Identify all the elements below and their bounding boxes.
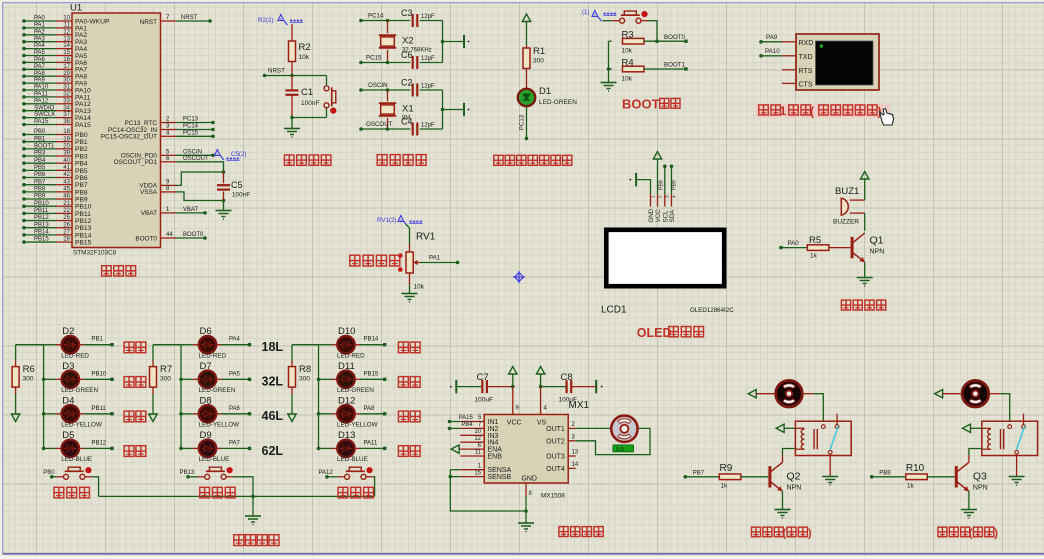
svg-text:PB4: PB4 [461, 422, 473, 428]
svg-text:PA15: PA15 [75, 122, 91, 129]
wire NRST horizontal [263, 74, 327, 78]
svg-text:LED-GREEN: LED-GREEN [337, 387, 374, 394]
wire net PA12 [319, 470, 345, 478]
ground MX1508 [518, 523, 534, 532]
svg-text:300: 300 [533, 58, 544, 65]
svg-text:OLED: OLED [637, 326, 672, 340]
arrow terminal below R6 [11, 414, 19, 422]
svg-text:D5: D5 [62, 430, 74, 441]
svg-text:OSCOUT: OSCOUT [183, 156, 209, 162]
svg-text:MX1: MX1 [569, 400, 590, 411]
svg-text:D4: D4 [62, 395, 74, 406]
svg-text:PA10: PA10 [765, 48, 780, 55]
svg-text:15: 15 [63, 50, 70, 56]
svg-text:D6: D6 [200, 326, 212, 337]
svg-text:PB6: PB6 [75, 175, 88, 182]
label LCD1 [601, 305, 627, 316]
svg-text:(: ( [810, 105, 814, 119]
svg-text:PB5: PB5 [75, 168, 88, 175]
svg-text:PB11: PB11 [75, 211, 91, 218]
svg-text:BOOT1: BOOT1 [34, 143, 55, 149]
svg-text:PB15: PB15 [75, 239, 92, 246]
svg-text:26: 26 [63, 222, 70, 228]
wire net PB14 [360, 337, 386, 347]
svg-text:1k: 1k [907, 483, 915, 490]
svg-text:12pF: 12pF [421, 56, 435, 62]
wire C1 bottom to button [290, 108, 326, 119]
svg-text:29: 29 [63, 71, 70, 77]
label 脱水 [398, 446, 420, 457]
wire pin 4 VS [541, 387, 548, 415]
label relay 排水 [938, 527, 999, 540]
svg-text:VCC: VCC [507, 419, 522, 426]
svg-text:D10: D10 [338, 326, 355, 337]
svg-text:PB8: PB8 [658, 180, 664, 190]
U1 pin 14 net PA4 wire [22, 43, 87, 53]
svg-text:R8: R8 [299, 364, 311, 375]
svg-text:PB9: PB9 [671, 180, 677, 190]
svg-text:BUZ1: BUZ1 [835, 186, 859, 197]
push button PB0 [64, 467, 92, 479]
U1 pin 19 net PB1 wire [22, 136, 88, 146]
svg-text:11: 11 [64, 23, 71, 29]
pin ENB stub [460, 450, 484, 456]
wire GND pin 8 [524, 483, 532, 523]
svg-text:100uF: 100uF [475, 397, 493, 404]
svg-text:PA12: PA12 [319, 470, 334, 476]
label 18L [262, 340, 284, 354]
label 洗涤 [398, 377, 420, 388]
pin OUT3 stub [568, 450, 579, 456]
svg-text:(1): (1) [582, 10, 589, 16]
label OLED显示屏 [637, 326, 704, 340]
svg-text:PA11: PA11 [364, 440, 378, 446]
svg-text:R5: R5 [809, 235, 821, 246]
svg-text:LED-RED: LED-RED [61, 353, 89, 360]
svg-text:4: 4 [671, 195, 677, 198]
U1 pin 9 VDDA wire [139, 172, 223, 190]
pot RV1 bottom wire [410, 273, 425, 294]
resistor R5 [779, 235, 852, 260]
wire net PB1 [84, 337, 113, 347]
wire net PA6 [222, 406, 252, 416]
resistor R2 [289, 24, 311, 76]
svg-text:12pF: 12pF [421, 84, 435, 90]
U1 pin 42 net PB6 wire [22, 172, 88, 182]
OLED pin stubs [650, 194, 677, 206]
svg-text:PB0: PB0 [43, 470, 55, 476]
wire PB4 to IN2 [448, 422, 485, 430]
svg-text:20: 20 [63, 143, 70, 149]
pin OUT4 stub [568, 462, 579, 468]
svg-text:VBAT: VBAT [141, 210, 157, 217]
node NRST [268, 68, 285, 75]
svg-text:300: 300 [23, 376, 34, 383]
svg-text:10k: 10k [414, 284, 425, 291]
svg-text:PB1: PB1 [75, 139, 88, 146]
wire net PA8 [360, 406, 386, 416]
U1 pin 8 VSSA wire [140, 186, 224, 201]
ground relay Q3 [1009, 477, 1025, 486]
svg-text:VSSA: VSSA [140, 189, 158, 196]
svg-text:BOOT0: BOOT0 [135, 235, 157, 242]
U1 pin 45 net PB8 wire [22, 186, 88, 196]
svg-text:OLED12864I2C: OLED12864I2C [690, 307, 734, 314]
svg-text:OSCIN: OSCIN [368, 82, 388, 89]
svg-text:PB11: PB11 [34, 208, 49, 214]
svg-text:14: 14 [572, 462, 579, 468]
svg-text:PC15-OSC32_OUT: PC15-OSC32_OUT [101, 134, 157, 141]
svg-text:SENSB: SENSB [488, 474, 512, 481]
OLED pin names [648, 208, 676, 222]
svg-text:10: 10 [63, 16, 70, 22]
wire relay common to ground Q2 [829, 454, 831, 476]
U1 pin 13 net PA3 wire [22, 36, 87, 46]
U1 pin 43 net PB7 wire [22, 179, 88, 189]
LED D3 LED-GREEN [42, 361, 99, 394]
label Q1 NPN [870, 235, 885, 256]
svg-text:PA11: PA11 [34, 92, 48, 98]
svg-text:PA0: PA0 [34, 16, 46, 22]
power arrow above R1 [522, 14, 530, 45]
svg-text:PB7: PB7 [34, 179, 46, 185]
svg-text:0.0: 0.0 [616, 447, 624, 453]
svg-text:LED-GREEN: LED-GREEN [539, 99, 577, 106]
svg-text:12pF: 12pF [421, 123, 435, 129]
svg-text:LED-YELLOW: LED-YELLOW [61, 422, 102, 429]
svg-text:10k: 10k [622, 48, 633, 55]
svg-text:OUT4: OUT4 [546, 466, 565, 473]
svg-text:300: 300 [160, 376, 171, 383]
U1 pin 7 NRST wire [140, 15, 212, 26]
relay RL Q3 box [982, 421, 1038, 455]
svg-text:1: 1 [780, 104, 787, 118]
svg-text:PA8: PA8 [364, 406, 376, 412]
svg-text:300: 300 [299, 376, 310, 383]
arrow terminal below R7 [149, 414, 157, 422]
svg-text:PA9: PA9 [766, 34, 778, 41]
terminal GND of OLED [630, 173, 651, 194]
svg-text:LED-BLUE: LED-BLUE [199, 456, 230, 463]
wire anode rail R8 column [292, 345, 319, 449]
label 主芯片 (main chip) [102, 266, 136, 276]
svg-text:LED-YELLOW: LED-YELLOW [337, 422, 378, 429]
svg-text:C2: C2 [401, 78, 413, 88]
svg-text:1: 1 [650, 195, 656, 198]
svg-text:PA9: PA9 [34, 78, 46, 84]
svg-text:RTS: RTS [799, 68, 813, 75]
svg-text:PA2: PA2 [34, 29, 46, 35]
svg-text:BOOT1: BOOT1 [664, 62, 686, 69]
svg-text:11: 11 [475, 450, 482, 456]
svg-text:40: 40 [63, 158, 70, 164]
label 程序运行指示灯 (program run indicator) [494, 155, 572, 165]
wire right rail X2 [441, 21, 463, 63]
svg-text:44: 44 [166, 232, 173, 238]
svg-text:X2: X2 [402, 36, 414, 47]
U1 pin 18 net PB0 wire [22, 129, 88, 139]
U1 pin 3 net PC14 wire [108, 124, 215, 134]
svg-text:R2(2): R2(2) [258, 17, 273, 24]
svg-text:1k: 1k [721, 483, 729, 490]
svg-text:X1: X1 [402, 104, 414, 115]
svg-text:PA5: PA5 [34, 50, 46, 56]
svg-text:D2: D2 [62, 326, 74, 337]
svg-text:PA15: PA15 [459, 415, 474, 421]
svg-text:45: 45 [63, 186, 70, 192]
label MX1 [569, 400, 590, 411]
svg-text:STM32F103C8: STM32F103C8 [73, 250, 117, 257]
wire from button PA12 [366, 477, 375, 497]
svg-text:): ) [808, 528, 812, 540]
pump motor Q2 load [776, 380, 803, 407]
svg-text:LED-YELLOW: LED-YELLOW [199, 422, 240, 429]
wire OSCIN rail [359, 82, 410, 92]
U1 pin 20 net BOOT1 wire [22, 143, 88, 153]
LED D12 LED-YELLOW [317, 395, 378, 428]
label 标准 [124, 342, 146, 353]
svg-text:31: 31 [63, 85, 70, 91]
svg-text:19: 19 [63, 136, 70, 142]
svg-text:C4: C4 [401, 117, 413, 127]
svg-text:VBAT: VBAT [183, 207, 199, 213]
resistor R1 [523, 45, 545, 89]
label 晶振电路 (crystal circuit) [377, 155, 426, 166]
wire relay common to ground Q3 [1016, 454, 1018, 476]
U1 pin 10 net PA0 wire [22, 16, 110, 26]
svg-text:PB12: PB12 [92, 440, 107, 446]
svg-text:PA4: PA4 [34, 43, 46, 49]
wire net PB7 [684, 470, 720, 478]
wire-label cursor RV1(2) [377, 216, 423, 227]
pot RV1 top wire [406, 225, 410, 253]
svg-text:PB2: PB2 [75, 146, 88, 153]
svg-text:PA0: PA0 [788, 240, 800, 247]
svg-text:BOOT: BOOT [622, 97, 660, 112]
U1 pin 40 net PB4 wire [22, 158, 88, 168]
svg-text:PA4: PA4 [229, 337, 241, 343]
U1 pin 21 net PB10 wire [22, 201, 91, 211]
svg-text:18L: 18L [262, 340, 284, 354]
label 水位监测 (water level monitor) [350, 255, 400, 266]
wire from button PB0 [85, 477, 99, 497]
svg-text:U1: U1 [70, 3, 82, 14]
wire PC14 rail [359, 12, 410, 22]
arrow terminal below R8 [288, 414, 296, 422]
relay switch contacts Q2 [821, 414, 839, 454]
wire net PB15 [360, 371, 386, 381]
svg-text:PB14: PB14 [75, 232, 92, 239]
svg-text:OUT2: OUT2 [546, 438, 565, 445]
wire PA9 to RXD [759, 34, 796, 44]
LED D5 LED-BLUE [42, 430, 92, 463]
ground buttons rail [245, 496, 261, 524]
svg-text:R6: R6 [23, 364, 35, 375]
LED D8 LED-YELLOW [179, 395, 239, 428]
svg-text:MX1508: MX1508 [541, 493, 565, 500]
label RV1 [416, 232, 436, 243]
transistor Q2 [770, 462, 783, 491]
pin IN4 stub [460, 436, 484, 442]
motor MX1 [611, 416, 637, 442]
U1 pin 44 BOOT0 wire [135, 232, 206, 242]
svg-text:43: 43 [63, 179, 70, 185]
svg-text:13: 13 [63, 36, 70, 42]
ground Q1 [857, 278, 873, 287]
svg-text:PB12: PB12 [75, 218, 92, 225]
svg-text:3: 3 [665, 195, 671, 198]
svg-text:PB14: PB14 [34, 229, 49, 235]
LED D6 LED-RED [181, 326, 227, 359]
virtual terminal box [796, 34, 879, 90]
wire net PA4 [222, 337, 252, 347]
arrow terminal coil Q3 [963, 424, 982, 432]
motor rpm display [613, 445, 634, 453]
resistor R6 [12, 345, 35, 414]
wire right rail X1 [441, 90, 463, 129]
svg-text:39: 39 [63, 151, 70, 157]
svg-text:PB10: PB10 [75, 204, 92, 211]
node BOOT0 terminal [664, 34, 688, 43]
capacitor C7 [475, 372, 513, 404]
svg-text:NPN: NPN [870, 249, 885, 256]
U1 pin 6 net OSCOUT wire [114, 156, 224, 172]
push button BOOT [603, 11, 658, 41]
wire Q3 emitter to ground [968, 491, 970, 509]
svg-text:OUT3: OUT3 [546, 454, 565, 461]
wire pump to relay switch Q3 [989, 394, 1010, 422]
LED D13 LED-BLUE [317, 430, 368, 463]
arrow terminal ENA [451, 443, 484, 454]
svg-text:25: 25 [63, 215, 70, 221]
svg-text:LCD1: LCD1 [601, 305, 627, 316]
svg-text:PC13: PC13 [520, 114, 526, 130]
svg-text:32: 32 [63, 92, 70, 98]
svg-text:SWDIO: SWDIO [34, 105, 55, 111]
power arrow VCC of OLED [653, 152, 661, 195]
LED D10 LED-RED [319, 326, 366, 359]
U1 pin 33 net PA12 wire [22, 98, 91, 108]
svg-text:38: 38 [63, 119, 70, 125]
svg-text:10k: 10k [299, 54, 310, 61]
relay switch contacts Q3 [1008, 414, 1026, 454]
svg-text:LED-GREEN: LED-GREEN [61, 387, 98, 394]
wire coil to Q3 collector [969, 449, 982, 463]
wire buzzer to Q1 collector [864, 213, 866, 231]
svg-text:C1: C1 [301, 87, 313, 98]
svg-text:PC15: PC15 [183, 130, 199, 136]
power arrow VCC MX1508 [509, 367, 517, 389]
wire PC15 rail [359, 54, 410, 64]
label MX1508 [541, 493, 565, 500]
label 水位键 (water level key) [200, 487, 235, 498]
IC U2 MX1508 body [484, 415, 568, 484]
svg-text:PC13: PC13 [183, 117, 199, 123]
resistor R7 [150, 345, 173, 414]
label 浸泡 [398, 342, 420, 353]
relay coil Q3 [982, 428, 1004, 449]
svg-text:PA5: PA5 [229, 371, 241, 377]
svg-text:C3: C3 [401, 8, 413, 18]
svg-text:PA7: PA7 [229, 440, 241, 446]
wire net PB10 [84, 371, 113, 381]
wire SENSB loop [449, 470, 527, 511]
svg-text:D7: D7 [200, 361, 212, 372]
U1 pin 25 net PB12 wire [22, 215, 91, 225]
label 模式键 (mode key) [54, 487, 89, 498]
ground BOOT divider [601, 83, 617, 92]
label 32L [262, 375, 284, 389]
svg-text:D3: D3 [62, 361, 74, 372]
wire R3-R4 left rail [607, 41, 611, 82]
svg-text:13: 13 [572, 450, 579, 456]
U1 pin 38 net PA15 wire [22, 119, 91, 129]
svg-text:D11: D11 [338, 361, 355, 372]
capacitor C3 [401, 8, 443, 27]
svg-text:PB10: PB10 [92, 371, 107, 377]
svg-text:18: 18 [63, 129, 70, 135]
wire net PA5 [222, 371, 252, 381]
svg-text:12: 12 [474, 436, 481, 442]
svg-text:PB9: PB9 [34, 194, 46, 200]
svg-text:D1: D1 [539, 86, 551, 97]
svg-text:D8: D8 [200, 395, 212, 406]
svg-text:PC15: PC15 [366, 54, 382, 61]
svg-text:LED-BLUE: LED-BLUE [61, 456, 92, 463]
label Q2 NPN [787, 471, 802, 492]
capacitor C5 [217, 170, 250, 202]
svg-text:GND: GND [648, 208, 655, 222]
svg-text:41: 41 [63, 165, 70, 171]
svg-text:R4: R4 [622, 57, 634, 68]
svg-text:PC13_RTC: PC13_RTC [124, 120, 157, 127]
svg-text:GND: GND [521, 476, 537, 483]
svg-text:R10: R10 [906, 463, 925, 474]
svg-text:R3: R3 [622, 30, 634, 41]
label 46L [262, 409, 284, 423]
power arrow VS MX1508 [536, 367, 544, 389]
wire-label cursor R2(2) [258, 15, 303, 26]
svg-text:33: 33 [63, 98, 70, 104]
wire PA10 to TXD [759, 48, 796, 58]
svg-text:PB4: PB4 [75, 161, 88, 168]
buzzer BUZ1 [833, 186, 865, 226]
U1 pin 29 net PA8 wire [22, 71, 87, 81]
terminal pin labels [799, 40, 814, 89]
svg-text:LED-RED: LED-RED [337, 353, 365, 360]
U1 pin 11 net PA1 wire [22, 23, 87, 33]
label 启停键 (start stop key) [338, 487, 373, 498]
U1 part number label [73, 250, 117, 257]
label 电机控制 (motor control) [559, 527, 603, 537]
label 强洗 [124, 411, 146, 422]
svg-text:OSCOUT_PD1: OSCOUT_PD1 [114, 159, 158, 166]
wire net PB13 [180, 470, 205, 478]
wire net PB0 [43, 470, 63, 478]
svg-text:17: 17 [63, 64, 70, 70]
ground relay Q2 [822, 477, 838, 486]
pin OUT1 wire to motor [568, 422, 611, 428]
svg-text:PA8: PA8 [34, 71, 46, 77]
svg-text:100nF: 100nF [301, 100, 319, 107]
terminal left of C7 [450, 380, 481, 393]
svg-text:PB15: PB15 [34, 237, 49, 243]
svg-text:R2: R2 [299, 42, 311, 53]
terminal X2 [464, 35, 469, 48]
label 快洗 [124, 446, 146, 457]
capacitor C4 [401, 117, 443, 136]
svg-text:C6: C6 [401, 50, 413, 60]
